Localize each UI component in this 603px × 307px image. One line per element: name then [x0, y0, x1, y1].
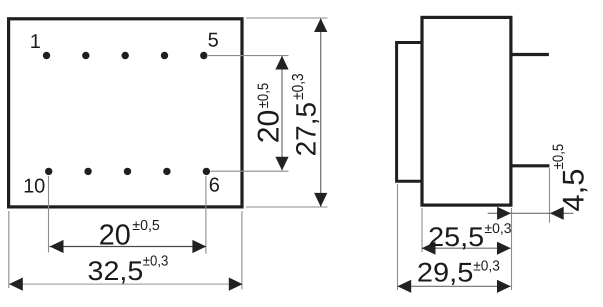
- pin 7 dot: [163, 168, 170, 175]
- dimension 25,5 arrow left: [422, 242, 436, 255]
- svg-text:±0,5: ±0,5: [550, 144, 567, 170]
- svg-text:5: 5: [208, 30, 219, 52]
- extension line from pin 6 (right): [211, 170, 289, 172]
- svg-text:±0,5: ±0,5: [132, 218, 160, 234]
- svg-text:20: 20: [99, 220, 131, 252]
- pin 3 dot: [122, 52, 129, 59]
- svg-text:29,5: 29,5: [417, 258, 474, 288]
- extension line from body right edge down: [241, 211, 243, 290]
- dimension 20 horizontal arrow right: [192, 240, 206, 253]
- extension line from body top edge: [246, 17, 328, 19]
- dimension 25,5 arrow right: [497, 242, 511, 255]
- svg-text:1: 1: [30, 31, 41, 53]
- extension line from body left edge down (side view): [421, 208, 423, 252]
- side view body outline: [422, 17, 511, 205]
- dimension 27,5 vertical line: [320, 18, 322, 206]
- dimension 4,5 arrow right (outside left): [497, 207, 511, 220]
- svg-text:±0,3: ±0,3: [143, 253, 169, 269]
- dimension 27,5 arrow up: [314, 18, 327, 32]
- dimension 32,5 arrow left: [9, 278, 23, 291]
- dimension 20 horizontal line: [50, 246, 207, 248]
- dimension 29,5 line: [397, 285, 510, 287]
- side view mounting tab: [397, 43, 422, 182]
- svg-text:6: 6: [209, 175, 220, 197]
- dimension 20 vertical line: [281, 56, 283, 170]
- extension line from lower pin end down: [549, 168, 551, 223]
- extension line from body left edge down: [8, 211, 10, 288]
- svg-text:27,5: 27,5: [290, 102, 321, 157]
- extension line from body right edge down (side view): [511, 208, 513, 290]
- svg-text:4,5: 4,5: [557, 169, 590, 212]
- dimension 4,5 arrow left (outside right): [550, 207, 564, 220]
- pin 2 dot: [82, 52, 89, 59]
- dimension 29,5 arrow right: [497, 280, 511, 293]
- pin 9 dot: [84, 168, 91, 175]
- dimension 32,5 arrow right: [229, 278, 243, 291]
- dimension 4,5 line: [488, 212, 574, 214]
- dimension 25,5 line: [422, 247, 511, 249]
- pin 1 dot: [43, 52, 50, 59]
- svg-text:25,5: 25,5: [428, 222, 484, 252]
- pin 10 dot: [45, 168, 52, 175]
- dimension 32,5 line: [9, 283, 243, 285]
- pin 4 dot: [161, 52, 168, 59]
- side view lower pin: [512, 164, 550, 167]
- extension line from body bottom edge: [246, 206, 328, 208]
- svg-text:±0,3: ±0,3: [484, 220, 511, 236]
- svg-text:±0,3: ±0,3: [473, 259, 500, 275]
- svg-text:20: 20: [253, 110, 286, 144]
- dimension 20 horizontal arrow left: [50, 240, 64, 253]
- dimension 20 vertical arrow up: [275, 56, 288, 70]
- dimension 20 vertical arrow down: [275, 157, 288, 171]
- side view upper pin: [512, 53, 549, 56]
- extension line from pin 6 down: [205, 176, 207, 254]
- dimension 27,5 arrow down: [314, 193, 327, 207]
- svg-text:±0,5: ±0,5: [255, 83, 272, 109]
- pin 5 dot: [200, 52, 207, 59]
- top view outline (transformer body): [9, 19, 242, 207]
- extension line from tab left edge down: [397, 184, 399, 290]
- svg-text:32,5: 32,5: [88, 256, 144, 286]
- dimension 29,5 arrow left: [397, 280, 411, 293]
- pin 6 dot: [203, 168, 210, 175]
- svg-text:±0,3: ±0,3: [290, 73, 307, 100]
- pin 8 dot: [124, 168, 131, 175]
- svg-text:10: 10: [23, 176, 45, 198]
- extension line from pin 5: [208, 55, 289, 57]
- extension line from pin 10 down: [48, 176, 50, 253]
